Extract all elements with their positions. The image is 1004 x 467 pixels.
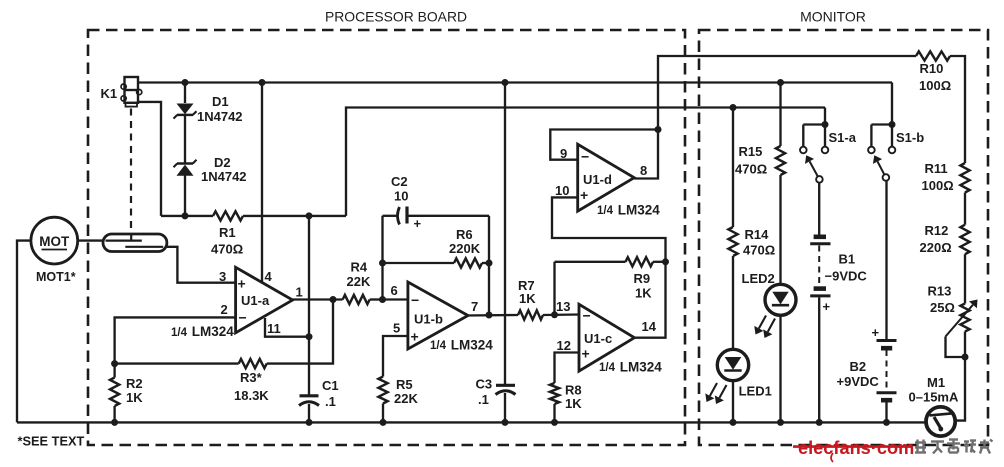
label R15 value [735, 162, 767, 177]
label pin 13 [556, 299, 570, 314]
node R8 bottom [551, 419, 558, 426]
svg-text:+: + [823, 299, 831, 314]
svg-text:25Ω: 25Ω [930, 300, 955, 315]
label R13 [928, 284, 952, 299]
wire R4 to pin6 node [370, 298, 383, 300]
svg-text:U1-b: U1-b [414, 312, 443, 327]
svg-text:R10: R10 [920, 61, 944, 76]
svg-text:13: 13 [556, 299, 570, 314]
resistor R5 [378, 377, 387, 404]
resistor R15 [776, 146, 785, 175]
wire K1 lower to R1 row [138, 102, 161, 216]
label B1 value [825, 269, 868, 284]
svg-text:.1: .1 [325, 394, 336, 409]
node R15 rail [777, 79, 784, 86]
label LED2 [742, 271, 775, 286]
label pin 8 [640, 163, 647, 178]
svg-text:S1-a: S1-a [829, 130, 857, 145]
wire R12 to R13 [964, 254, 966, 303]
svg-text:5: 5 [393, 321, 400, 336]
svg-text:1: 1 [296, 285, 303, 300]
label pin 12 [557, 338, 571, 353]
resistor R12 [960, 225, 969, 255]
svg-text:R4: R4 [351, 260, 368, 275]
svg-text:100Ω: 100Ω [919, 78, 951, 93]
label pin 6 [391, 283, 398, 298]
motor MOT1 [31, 217, 78, 264]
label R10 value [919, 78, 951, 93]
battery B2 [877, 341, 897, 401]
label R8 value [565, 396, 582, 411]
label R11 value [922, 178, 954, 193]
switch S1-a [800, 125, 828, 183]
wire pin 9 feedback [550, 130, 658, 160]
capacitor C3 [496, 385, 516, 394]
label pin 1 [296, 285, 303, 300]
label R2 [126, 376, 143, 391]
svg-text:R1: R1 [219, 225, 236, 240]
svg-text:1K: 1K [126, 390, 143, 405]
wire R1 node up to monitor feed [346, 108, 825, 216]
wire R2 to rail [113, 406, 115, 422]
label B1 [839, 252, 856, 267]
wire pin 8 up [634, 56, 916, 179]
node R3 left [111, 360, 118, 367]
label C1 value [325, 394, 336, 409]
wire C2 branch up [381, 216, 383, 300]
label S1-b [896, 130, 924, 145]
label 1/4 LM324 U1-b [430, 338, 493, 353]
node output U1-a [330, 296, 337, 303]
wire R14/LED1 branch [732, 108, 734, 228]
LED LED1 [705, 349, 748, 404]
svg-text:1/4: 1/4 [599, 362, 616, 374]
svg-text:1/4: 1/4 [430, 340, 447, 352]
wire U1-b output [466, 314, 518, 317]
svg-text:LM324: LM324 [614, 203, 660, 218]
wire R13 to meter [956, 332, 965, 421]
LED LED2 [754, 284, 796, 338]
wire R5 to rail [382, 404, 384, 423]
label U1-a [241, 293, 270, 308]
wire R3 row [115, 362, 239, 364]
svg-text:C2: C2 [391, 174, 408, 189]
reed switch [103, 234, 167, 252]
wire S1-a to B1 [818, 183, 820, 235]
wire R15 to LED2 [779, 175, 781, 285]
resistor R11 [960, 163, 969, 193]
label M1 range [909, 390, 959, 405]
svg-text:+: + [582, 346, 590, 362]
svg-text:U1-a: U1-a [241, 293, 270, 308]
watermark elecfans.com [793, 438, 914, 462]
svg-text:R9: R9 [634, 271, 651, 286]
label R6 [456, 227, 473, 242]
svg-text:1K: 1K [519, 291, 536, 306]
label R3 value [234, 388, 269, 403]
wire R15/LED2 branch [779, 83, 781, 147]
svg-text:0–15mA: 0–15mA [909, 390, 959, 405]
wire R8 to rail [553, 404, 555, 422]
label pin 7 [471, 299, 478, 314]
resistor R4 [343, 295, 370, 304]
label R11 [925, 161, 948, 176]
svg-text:1/4: 1/4 [171, 327, 188, 339]
label D1 value [197, 109, 243, 124]
svg-text:R2: R2 [126, 376, 143, 391]
wire D2 to R1 row [184, 176, 186, 216]
svg-text:18.3K: 18.3K [234, 388, 269, 403]
processor board dashed border [88, 30, 685, 445]
svg-text:220Ω: 220Ω [920, 240, 952, 255]
svg-text:−: − [411, 292, 419, 308]
label MOT1* [36, 270, 76, 284]
svg-text:470Ω: 470Ω [735, 162, 767, 177]
svg-text:R3*: R3* [240, 370, 263, 385]
svg-text:22K: 22K [394, 391, 418, 406]
svg-text:U1-d: U1-d [583, 172, 612, 187]
wire pin 5 [383, 336, 408, 377]
wire pin 6 [383, 298, 408, 300]
wire R13 wiper [946, 337, 966, 358]
svg-text:470Ω: 470Ω [211, 242, 243, 257]
label D2 value [201, 169, 247, 184]
label R8 [565, 383, 582, 398]
label 1/4 LM324 U1-c [599, 360, 662, 375]
wire ground rail [17, 421, 926, 423]
footnote SEE TEXT [18, 434, 85, 449]
resistor R6 [454, 258, 482, 267]
svg-text:R15: R15 [739, 144, 763, 159]
node B2 bottom [883, 419, 890, 426]
svg-text:100Ω: 100Ω [922, 178, 954, 193]
svg-text:14: 14 [642, 319, 657, 334]
wire C3 to rail [504, 393, 506, 422]
svg-text:LM324: LM324 [616, 360, 662, 375]
svg-text:elecfans·com: elecfans·com [798, 438, 914, 458]
label R9 value [635, 286, 652, 301]
label C1 [322, 378, 339, 393]
svg-text:B2: B2 [850, 359, 867, 374]
node D1 top [182, 79, 189, 86]
title PROCESSOR BOARD [325, 9, 467, 25]
wire R6 right vertical [488, 216, 490, 315]
svg-text:R12: R12 [925, 223, 949, 238]
node R13 wiper [962, 354, 969, 361]
svg-text:−: − [583, 308, 591, 324]
label R4 [351, 260, 368, 275]
svg-text:+: + [238, 276, 246, 292]
label U1-c [584, 331, 612, 346]
label 1/4 LM324 U1-d [597, 203, 660, 218]
B2 plus [872, 325, 880, 340]
node R6 right [486, 260, 493, 267]
svg-text:12: 12 [557, 338, 571, 353]
wire rail to D1 [184, 83, 186, 104]
battery B1 [810, 237, 830, 296]
label pin 14 [642, 319, 657, 334]
resistor R7 [518, 310, 543, 319]
U1-d minus [581, 149, 589, 165]
label R1 [219, 225, 236, 240]
wire MOT left to ground rail [17, 241, 31, 423]
label S1-a [829, 130, 857, 145]
svg-text:MONITOR: MONITOR [800, 9, 866, 25]
U1-c minus [583, 308, 591, 324]
wire LED1 to rail [732, 381, 734, 423]
wire D1 to D2 [184, 115, 186, 164]
svg-text:2: 2 [221, 302, 228, 317]
svg-text:R5: R5 [396, 377, 413, 392]
wire pin4 supply [261, 83, 263, 282]
wire B1 to rail [818, 297, 820, 422]
wire feed S1-a [824, 108, 826, 125]
svg-text:11: 11 [267, 321, 281, 336]
capacitor C1 [299, 396, 319, 406]
svg-text:1/4: 1/4 [597, 205, 614, 217]
label U1-b [414, 312, 443, 327]
svg-text:U1-c: U1-c [584, 331, 612, 346]
B1 plus [823, 299, 831, 314]
wire C1 vertical [308, 216, 310, 395]
zener diode D2 [174, 160, 197, 176]
capacitor C2 [398, 207, 408, 225]
label R15 [739, 144, 763, 159]
svg-text:−9VDC: −9VDC [825, 269, 868, 284]
svg-text:LED1: LED1 [739, 384, 772, 399]
svg-text:−: − [239, 310, 247, 326]
wire feed S1-b [891, 83, 893, 125]
U1-b plus [411, 329, 419, 345]
switch S1-b [868, 125, 895, 181]
label B2 [850, 359, 867, 374]
label R14 [745, 227, 770, 242]
node S1-a top [822, 121, 829, 128]
node LED2 bottom [777, 419, 784, 426]
wire LED2 to rail [779, 315, 781, 422]
svg-text:D2: D2 [214, 155, 231, 170]
svg-text:LM324: LM324 [188, 324, 234, 339]
wire pin 12 [555, 353, 580, 384]
resistor R10 [916, 51, 950, 60]
wire C1 to rail [308, 404, 310, 422]
node R9 right [662, 258, 669, 265]
label U1-d [583, 172, 612, 187]
wire R9 right [653, 261, 666, 263]
wire C3 vertical [504, 83, 506, 385]
svg-text:1N4742: 1N4742 [197, 109, 243, 124]
node R2 bottom [111, 419, 118, 426]
label R5 [396, 377, 413, 392]
wire C2 left [383, 215, 399, 217]
label R6 value [449, 241, 481, 256]
svg-text:R14: R14 [745, 227, 770, 242]
svg-text:S1-b: S1-b [896, 130, 924, 145]
node C3 rail [502, 79, 509, 86]
op-amp U1-d [578, 144, 635, 211]
C2 plus [414, 216, 422, 231]
svg-text:−: − [581, 149, 589, 165]
svg-text:+: + [872, 325, 880, 340]
svg-text:470Ω: 470Ω [743, 243, 775, 258]
wire R10 corner down [950, 56, 965, 163]
label M1 [927, 375, 945, 390]
wire R7 to pin13 [543, 313, 579, 316]
label R4 value [347, 274, 371, 289]
node U1-b out [486, 312, 493, 319]
label R7 value [519, 291, 536, 306]
wire R6 row left [383, 262, 455, 264]
label R13 value [930, 300, 955, 315]
label pin 10 [555, 183, 569, 198]
node pin6 [379, 296, 386, 303]
svg-text:8: 8 [640, 163, 647, 178]
wire R14 to LED1 [732, 256, 734, 350]
svg-text:4: 4 [265, 269, 273, 284]
svg-text:10: 10 [394, 189, 408, 204]
wire R1 row right [243, 215, 346, 217]
label R9 [634, 271, 651, 286]
node D2 bottom [182, 212, 189, 219]
U1-a plus [238, 276, 246, 292]
label 1/4 LM324 U1-a [171, 324, 234, 339]
label R7 [518, 278, 535, 293]
relay K1 [121, 77, 142, 107]
label R12 value [920, 240, 952, 255]
U1-a minus [239, 310, 247, 326]
resistor R1 [213, 211, 243, 220]
label LED1 [739, 384, 772, 399]
svg-text:+: + [414, 216, 422, 231]
wire B2 to rail [885, 402, 887, 422]
wire top supply rail [138, 81, 892, 83]
watermark chinese characters [915, 440, 993, 454]
U1-c plus [582, 346, 590, 362]
svg-text:*SEE TEXT: *SEE TEXT [18, 434, 85, 449]
label B2 value [837, 374, 880, 389]
resistor R9 [626, 257, 654, 266]
label D1 [212, 94, 229, 109]
wire S1-b to B2 [885, 181, 887, 340]
svg-text:M1: M1 [927, 375, 945, 390]
resistor R13 rheostat [946, 300, 978, 337]
label C2 [391, 174, 408, 189]
svg-text:1N4742: 1N4742 [201, 169, 247, 184]
wire U1-c out feedback [552, 197, 666, 337]
wire pin11 [265, 318, 309, 337]
wire reed to U1-a pin3 [167, 247, 236, 283]
label pin 9 [560, 146, 567, 161]
node pin11 C1 [306, 333, 313, 340]
label C2 value [394, 189, 408, 204]
label R10 [920, 61, 944, 76]
node pin4 rail [259, 79, 266, 86]
svg-text:B1: B1 [839, 252, 856, 267]
svg-text:+9VDC: +9VDC [837, 374, 880, 389]
svg-text:+: + [411, 329, 419, 345]
node C1 branch [306, 212, 313, 219]
resistor R2 [110, 378, 119, 407]
wire R9 row [555, 261, 626, 263]
title MONITOR [800, 9, 866, 25]
resistor R14 [728, 227, 737, 256]
wire R6 right [482, 262, 489, 264]
node LED1 bottom [730, 419, 737, 426]
U1-b minus [411, 292, 419, 308]
svg-text:220K: 220K [449, 241, 481, 256]
node R14 branch [730, 104, 737, 111]
svg-text:R11: R11 [925, 161, 948, 176]
label R14 value [743, 243, 775, 258]
wire R11 to R12 [964, 193, 966, 225]
label R1 value [211, 242, 243, 257]
wire MOT to reed switch [78, 239, 103, 241]
svg-text:K1: K1 [101, 86, 118, 101]
label R5 value [394, 391, 418, 406]
dashed link K1 to reed [130, 109, 132, 235]
svg-text:LED2: LED2 [742, 271, 775, 286]
label C3 [476, 377, 493, 392]
label pin 4 [265, 269, 273, 284]
node S1-b top [889, 121, 896, 128]
op-amp U1-c [579, 304, 634, 371]
svg-text:R13: R13 [928, 284, 952, 299]
wire pin 2 left [115, 317, 236, 377]
U1-d plus [580, 187, 588, 203]
wire R3 to output [267, 300, 333, 364]
label R12 [925, 223, 949, 238]
svg-text:6: 6 [391, 283, 398, 298]
svg-text:MOT1*: MOT1* [36, 270, 76, 284]
svg-text:C3: C3 [476, 377, 493, 392]
svg-text:R6: R6 [456, 227, 473, 242]
node R6 left [379, 260, 386, 267]
label pin 2 [221, 302, 228, 317]
svg-text:22K: 22K [347, 274, 371, 289]
resistor R8 [550, 383, 559, 404]
node C3 bottom [502, 419, 509, 426]
label C3 value [478, 392, 489, 407]
svg-text:3: 3 [219, 269, 226, 284]
node C1 bottom [306, 419, 313, 426]
svg-text:10: 10 [555, 183, 569, 198]
op-amp U1-a [236, 267, 293, 333]
node pin8 fb [655, 126, 662, 133]
svg-text:1K: 1K [565, 396, 582, 411]
svg-text:.1: .1 [478, 392, 489, 407]
label pin 5 [393, 321, 400, 336]
svg-text:PROCESSOR BOARD: PROCESSOR BOARD [325, 9, 467, 25]
monitor dashed border [699, 30, 988, 445]
svg-text:+: + [580, 187, 588, 203]
label pin 3 [219, 269, 226, 284]
wire R1 row left [161, 215, 213, 217]
wire C2 right [407, 215, 489, 217]
label pin 11 [267, 321, 281, 336]
label K1 [101, 86, 118, 101]
svg-text:1K: 1K [635, 286, 652, 301]
meter M1 [926, 407, 955, 436]
resistor R3 [239, 359, 267, 368]
op-amp U1-b [408, 282, 468, 349]
node R5 bottom [380, 419, 387, 426]
label R2 value [126, 390, 143, 405]
node pin13 [551, 311, 558, 318]
zener diode D1 [174, 104, 197, 119]
node B1 bottom [816, 419, 823, 426]
svg-text:LM324: LM324 [447, 338, 493, 353]
svg-text:7: 7 [471, 299, 478, 314]
